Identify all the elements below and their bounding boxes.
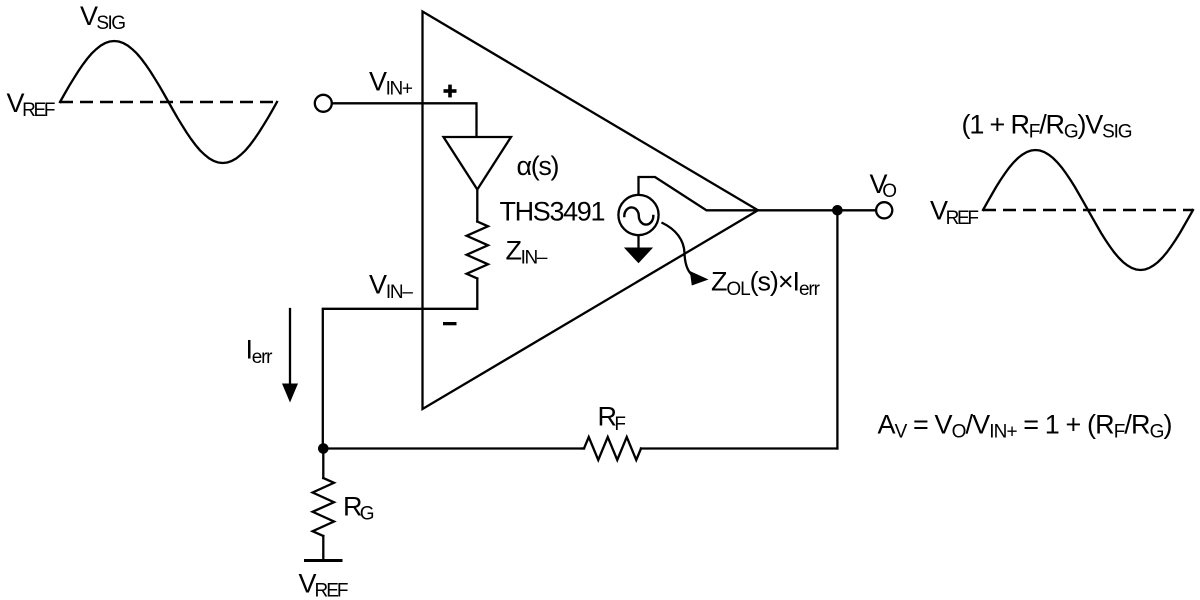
- input terminal VIN+: [315, 95, 332, 112]
- svg-text:VSIG: VSIG: [80, 1, 126, 34]
- svg-text:VREF: VREF: [7, 88, 56, 121]
- plus sign noninverting input: [444, 85, 457, 98]
- node A inverting feedback junction: [318, 443, 329, 454]
- wire ZIN- to inverting input node VIN-: [323, 279, 478, 449]
- resistor ZIN-: [467, 222, 488, 279]
- wire VIN+ from terminal into op-amp: [332, 103, 477, 135]
- sine symbol inside source: [624, 207, 653, 224]
- svg-text:Ierr: Ierr: [246, 335, 274, 368]
- wire RG to VREF ground bar: [322, 536, 324, 560]
- wire below source to ground arrow: [637, 236, 639, 250]
- svg-text:ZIN–: ZIN–: [506, 235, 548, 268]
- svg-text:(1 + RF/RG)VSIG: (1 + RF/RG)VSIG: [962, 109, 1133, 142]
- wire RF to node A: [323, 447, 584, 449]
- svg-text:RG: RG: [343, 491, 375, 524]
- callout arrow curve to ZOL(s)xIerr label: [663, 223, 692, 275]
- output terminal VO: [876, 202, 892, 218]
- ground bar VREF: [306, 559, 342, 562]
- controlled source ZOL circle: [618, 195, 658, 235]
- svg-text:VIN+: VIN+: [369, 66, 413, 99]
- current arrow Ierr line: [289, 309, 291, 385]
- svg-text:ZOL(s)×Ierr: ZOL(s)×Ierr: [711, 267, 821, 300]
- svg-text:VO: VO: [870, 169, 898, 202]
- svg-text:α(s): α(s): [517, 151, 560, 181]
- node B output feedback junction: [832, 205, 843, 216]
- VREF dashed baseline of output waveform: [983, 209, 1193, 212]
- op-amp U1 THS3491 outline triangle: [423, 12, 759, 410]
- svg-text:VREF: VREF: [930, 196, 979, 229]
- current arrow Ierr head: [282, 384, 298, 403]
- waveform VSIG input sine: [60, 41, 277, 163]
- wire op-amp output to terminal VO: [758, 209, 876, 211]
- resistor RG: [313, 478, 334, 536]
- buffer amp a(s) triangle: [444, 137, 512, 190]
- waveform output sine: [983, 150, 1193, 270]
- svg-text:VIN–: VIN–: [369, 270, 413, 303]
- svg-text:AV = VO/VIN+ = 1 + (RF/RG): AV = VO/VIN+ = 1 + (RF/RG): [878, 409, 1173, 442]
- wire buffer output to ZIN- resistor: [476, 190, 478, 222]
- ground arrow below source: [624, 248, 653, 264]
- wire node A to RG: [322, 449, 324, 479]
- wire source top to op-amp output apex: [639, 177, 759, 210]
- wire feedback right vertical: [836, 210, 838, 448]
- resistor RF: [582, 437, 641, 460]
- svg-text:THS3491: THS3491: [500, 197, 606, 227]
- svg-text:RF: RF: [598, 402, 627, 435]
- callout arrowhead: [690, 271, 709, 286]
- VREF dashed baseline of input waveform: [60, 101, 278, 104]
- minus sign inverting input: [443, 322, 457, 325]
- svg-text:VREF: VREF: [299, 568, 349, 600]
- wire feedback bottom run left of RF: [641, 447, 837, 449]
